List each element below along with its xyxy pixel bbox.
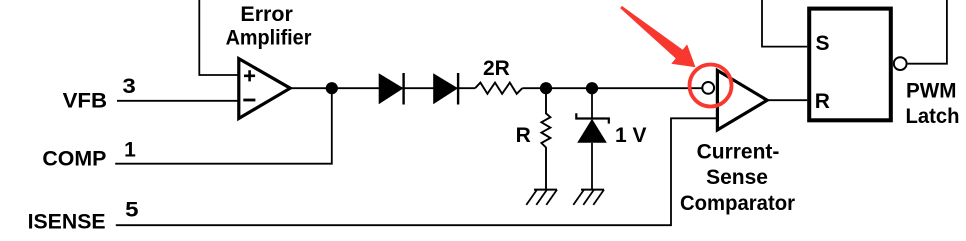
comparator U2 current-sense [717, 70, 767, 129]
op-amp - input mark [243, 99, 255, 102]
svg-text:1: 1 [124, 138, 136, 161]
svg-text:ISENSE: ISENSE [28, 211, 106, 234]
main wire: error amp output to comparator bubble [290, 87, 702, 89]
diode D2 [433, 73, 458, 104]
wire COMP pin 1 to output node [115, 88, 332, 164]
wire to latch S input [762, 0, 807, 47]
svg-text:Amplifier: Amplifier [226, 26, 312, 49]
wire VFB pin 3 to inverting input [117, 100, 239, 102]
junction dot COMP node [326, 82, 338, 94]
svg-text:R: R [815, 90, 830, 113]
junction dot node A (2R / R divider) [540, 82, 552, 94]
resistor R (vertical) with wires [541, 88, 550, 189]
svg-text:3: 3 [122, 75, 135, 98]
wire ISENSE pin 5 to comparator lower input [116, 118, 718, 225]
op-amp + input mark [244, 70, 255, 81]
svg-text:5: 5 [125, 198, 139, 221]
diode D1 [379, 73, 404, 104]
svg-text:2R: 2R [483, 57, 510, 80]
svg-text:Current-: Current- [697, 141, 780, 164]
svg-text:Latch: Latch [906, 105, 960, 128]
latch output bubble [894, 57, 907, 70]
svg-text:PWM: PWM [906, 80, 957, 103]
comparator input bubble [702, 82, 714, 94]
svg-text:Sense: Sense [706, 166, 768, 189]
wire: reference input to error-amp + input [199, 0, 239, 75]
svg-text:1 V: 1 V [615, 124, 647, 147]
svg-text:S: S [816, 32, 830, 55]
svg-text:R: R [516, 124, 531, 147]
svg-text:VFB: VFB [63, 89, 108, 112]
svg-text:COMP: COMP [42, 148, 106, 171]
latch output wire [908, 0, 947, 64]
svg-text:Error: Error [240, 3, 293, 26]
ground (below R) [526, 190, 557, 205]
svg-text:Comparator: Comparator [680, 192, 795, 215]
junction dot node B (zener clamp) [586, 82, 598, 94]
resistor 2R zigzag [475, 83, 522, 94]
red callout arrow [620, 6, 695, 67]
ground (below zener) [573, 190, 604, 205]
red highlight circle [690, 65, 732, 107]
PWM latch box [809, 9, 891, 121]
zener diode D3 (1 V clamp) [591, 88, 593, 118]
op-amp U1 error amplifier [239, 59, 290, 119]
wire comparator output to latch R input [767, 99, 807, 101]
